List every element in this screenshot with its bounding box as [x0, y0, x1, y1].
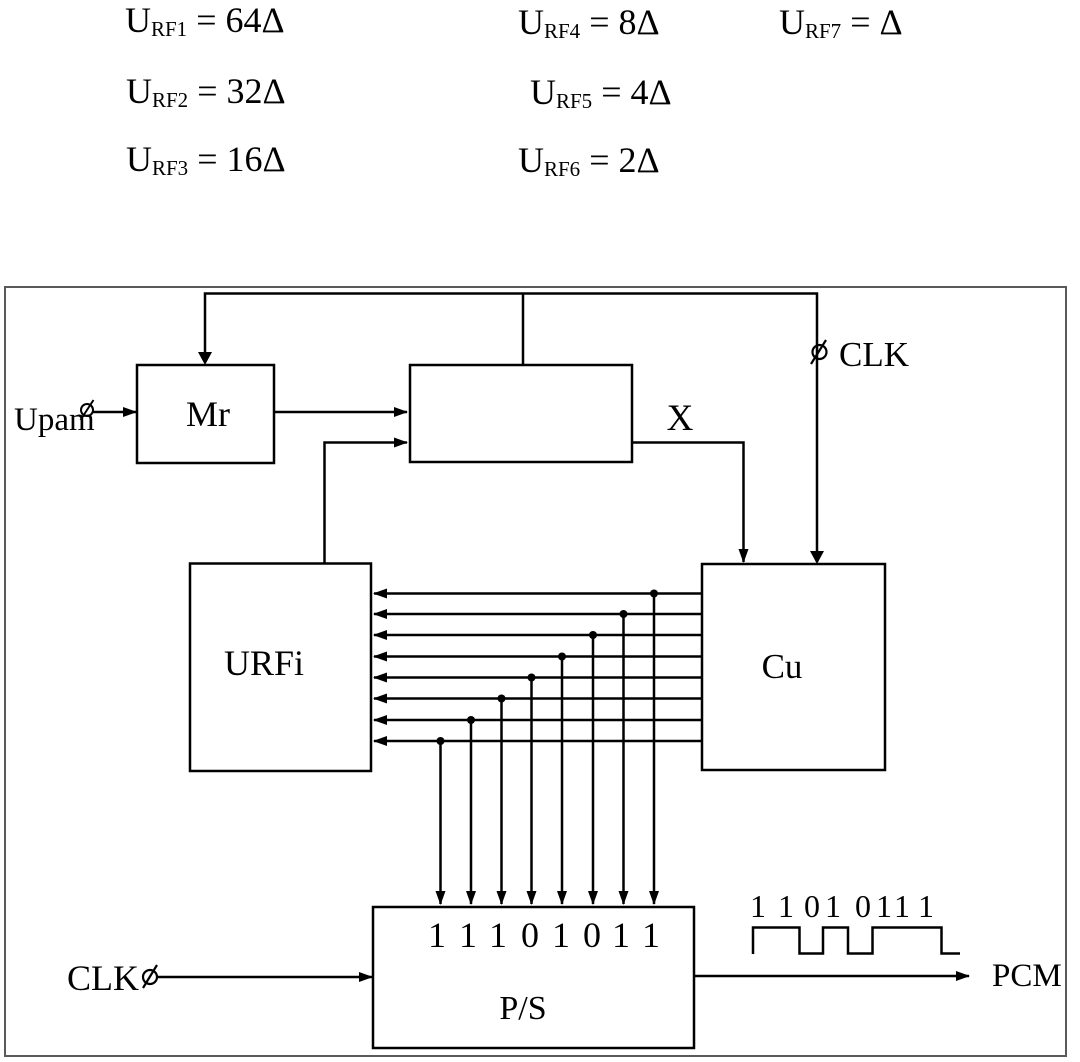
waveform trace — [753, 928, 960, 955]
svg-text:0: 0 — [855, 888, 871, 924]
wire Upam to Mr — [93, 411, 136, 414]
wire URFi riser to comparator — [325, 443, 408, 564]
tap 5 — [530, 678, 533, 905]
arrow into Cu top (CLK) — [810, 551, 824, 564]
tap 2 — [622, 614, 625, 904]
svg-text:1: 1 — [459, 915, 477, 955]
block comparator — [410, 365, 632, 462]
svg-text:CLK: CLK — [839, 335, 909, 374]
svg-text:1: 1 — [750, 888, 766, 924]
wire CLK to P/S — [157, 976, 372, 979]
svg-text:1: 1 — [894, 888, 910, 924]
tap 3 — [592, 635, 595, 904]
wire Mr to comparator — [274, 411, 407, 414]
svg-text:URF5 = 4Δ: URF5 = 4Δ — [530, 72, 672, 113]
block P/S — [373, 907, 694, 1048]
svg-text:1: 1 — [428, 915, 446, 955]
junction dots — [437, 590, 659, 746]
svg-text:0: 0 — [521, 915, 539, 955]
svg-text:URF4 = 8Δ: URF4 = 8Δ — [518, 2, 660, 43]
svg-text:URF7 = Δ: URF7 = Δ — [779, 2, 903, 43]
svg-text:1: 1 — [778, 888, 794, 924]
bus wire 4 — [374, 655, 702, 658]
phi symbol at CLK bottom — [143, 965, 157, 988]
svg-text:1: 1 — [825, 888, 841, 924]
bus wire 5 — [374, 676, 702, 679]
svg-text:1: 1 — [642, 915, 660, 955]
waveform bits — [750, 888, 934, 924]
svg-text:Upam: Upam — [14, 402, 95, 438]
phi symbol on CLK line — [811, 340, 827, 364]
wire P/S to PCM — [694, 975, 969, 978]
svg-text:Cu: Cu — [762, 647, 803, 686]
svg-text:P/S: P/S — [499, 990, 546, 1027]
svg-text:1: 1 — [918, 888, 934, 924]
svg-text:1: 1 — [489, 915, 507, 955]
tap 1 — [653, 594, 656, 905]
bus wire 8 — [374, 740, 702, 743]
svg-text:Mr: Mr — [186, 394, 230, 434]
wire top feedback: up from Mr, across, down to Cu (CLK) — [205, 294, 817, 563]
block URFi — [190, 564, 371, 772]
wire X: comparator to Cu — [632, 443, 744, 563]
arrow into Mr top — [198, 352, 212, 365]
register bits above P/S — [428, 915, 660, 955]
phi symbol at Upam — [81, 400, 94, 420]
svg-text:URF1 = 64Δ: URF1 = 64Δ — [125, 0, 285, 41]
svg-text:URF3 = 16Δ: URF3 = 16Δ — [126, 139, 286, 180]
svg-text:0: 0 — [804, 888, 820, 924]
svg-text:URF2 = 32Δ: URF2 = 32Δ — [126, 71, 286, 112]
bus wire 1 Cu to URFi — [374, 594, 702, 742]
block Cu — [702, 564, 885, 770]
svg-text:PCM: PCM — [992, 958, 1062, 994]
tap 4 — [561, 657, 564, 905]
block Mr — [137, 365, 274, 463]
tap verticals to P/S — [441, 594, 655, 905]
svg-text:1: 1 — [552, 915, 570, 955]
wire branch down to comparator top — [522, 294, 525, 366]
svg-text:1: 1 — [612, 915, 630, 955]
tap 8 — [439, 741, 442, 904]
tap 7 — [470, 720, 473, 904]
bus wire 3 — [374, 634, 702, 637]
tap 6 — [500, 699, 503, 905]
svg-text:0: 0 — [583, 915, 601, 955]
svg-text:CLK: CLK — [67, 958, 139, 998]
svg-text:URFi: URFi — [224, 643, 304, 683]
bus wire 2 — [374, 613, 702, 616]
diagram outer frame — [5, 287, 1066, 1056]
svg-text:X: X — [667, 398, 694, 439]
svg-text:1: 1 — [876, 888, 892, 924]
bus wire 6 — [374, 697, 702, 700]
bus wire 7 — [374, 719, 702, 722]
svg-text:URF6 = 2Δ: URF6 = 2Δ — [518, 140, 660, 181]
